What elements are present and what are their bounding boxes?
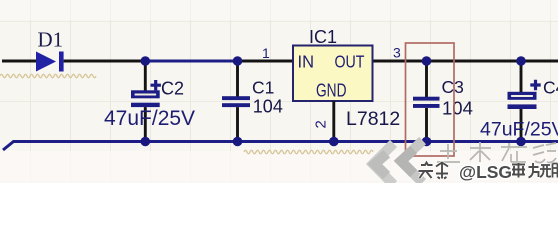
junction dot gnd IC pin2 bbox=[329, 137, 339, 147]
svg-text:C4: C4 bbox=[543, 78, 558, 98]
wire: node B down to C1 bbox=[236, 61, 239, 97]
C2 positive plate (thick hollow) bbox=[131, 90, 160, 98]
wire: input wire left edge to diode anode bbox=[2, 60, 36, 63]
C3 plate bottom bbox=[413, 104, 440, 108]
capacitor C2 (electrolytic) bbox=[131, 61, 161, 142]
grid horizontal lines bbox=[0, 22, 558, 182]
node A junction dot (top C2) bbox=[141, 56, 151, 66]
regulator IC1 body bbox=[293, 46, 373, 102]
watermark glyph wu bbox=[540, 165, 551, 177]
wire: node D down to C4 + plate bbox=[520, 61, 523, 92]
watermark glyph li bbox=[529, 163, 539, 178]
svg-text:104: 104 bbox=[253, 97, 283, 117]
wire: node B to IC pin 1 bbox=[237, 60, 293, 63]
svg-text:1: 1 bbox=[262, 45, 270, 61]
red highlight box around C3 bbox=[406, 43, 455, 156]
wire: C1 to ground rail bbox=[236, 107, 239, 141]
capacitor C3 (ceramic 104) bbox=[413, 61, 440, 142]
outline char 3 bbox=[501, 143, 527, 162]
watermark glyph xian bbox=[553, 164, 558, 178]
light band top bbox=[0, 0, 558, 20]
svg-text:D1: D1 bbox=[38, 27, 64, 51]
watermark toutiao glyph tiao bbox=[436, 163, 448, 179]
wire: IC pin 3 to right edge bbox=[372, 60, 558, 63]
watermark chevron logo bbox=[373, 144, 419, 181]
svg-text:C1: C1 bbox=[252, 78, 274, 98]
wire: node C down to C3 bbox=[425, 61, 428, 97]
junction dot gnd C3 bbox=[422, 137, 432, 147]
svg-text:IC1: IC1 bbox=[309, 27, 337, 47]
C4 plus sign bbox=[530, 80, 540, 90]
svg-text:IN: IN bbox=[298, 52, 315, 72]
junction dot gnd C1 bbox=[233, 137, 243, 147]
wire: node A to node B (navy segment) bbox=[145, 60, 238, 63]
C1 plate bottom bbox=[222, 103, 250, 107]
C4 negative plate (solid) bbox=[508, 104, 537, 109]
svg-text:C3: C3 bbox=[442, 77, 464, 97]
node C junction dot (top C3) bbox=[422, 56, 432, 66]
outline char 2 bbox=[470, 142, 491, 162]
C1 plate top bbox=[222, 96, 250, 100]
wire: diode cathode to node A bbox=[64, 60, 146, 63]
watermark glyph mei bbox=[512, 163, 525, 178]
wire: IC GND pin 2 down to rail bbox=[332, 101, 335, 142]
C4 positive plate (thick hollow) bbox=[508, 92, 537, 100]
outline char 1 bbox=[437, 144, 460, 162]
svg-text:3: 3 bbox=[393, 45, 401, 61]
junction dot gnd C2 bbox=[141, 137, 151, 147]
wavy error squiggle under ground rail bbox=[244, 150, 373, 153]
node B junction dot (top C1) bbox=[233, 56, 243, 66]
C2 plus sign bbox=[151, 80, 161, 90]
light band below ground rail bbox=[0, 151, 558, 183]
svg-text:@LSG: @LSG bbox=[459, 162, 512, 182]
wire: node A down to C2 + plate bbox=[144, 61, 147, 91]
wire: C4 to ground rail bbox=[520, 109, 523, 142]
watermark toutiao glyph tou bbox=[419, 163, 434, 179]
outline char 4 bbox=[533, 143, 556, 163]
node D junction dot (top C4) bbox=[516, 56, 526, 66]
wire: C3 to ground rail bbox=[425, 108, 428, 142]
svg-text:OUT: OUT bbox=[335, 52, 365, 72]
svg-text:2: 2 bbox=[313, 120, 330, 128]
wavy error squiggle under input wire bbox=[0, 74, 96, 77]
C2 negative plate (solid) bbox=[131, 103, 160, 107]
diode D1 bbox=[36, 52, 64, 72]
C3 plate top bbox=[413, 97, 440, 101]
wire: C2 to ground rail bbox=[144, 107, 147, 141]
svg-text:GND: GND bbox=[316, 79, 347, 100]
wire: bottom ground rail bbox=[3, 142, 558, 151]
svg-text:L7812: L7812 bbox=[346, 108, 400, 130]
svg-text:C2: C2 bbox=[161, 79, 184, 99]
capacitor C1 (ceramic 104) bbox=[222, 61, 250, 142]
svg-text:104: 104 bbox=[442, 98, 473, 119]
svg-text:47uF/25V: 47uF/25V bbox=[104, 107, 195, 130]
watermark outline text tu mu zai xian bbox=[437, 142, 556, 163]
junction dot gnd C4 bbox=[516, 137, 526, 147]
grid vertical lines bbox=[31, 0, 551, 183]
capacitor C4 (electrolytic) bbox=[508, 61, 541, 142]
